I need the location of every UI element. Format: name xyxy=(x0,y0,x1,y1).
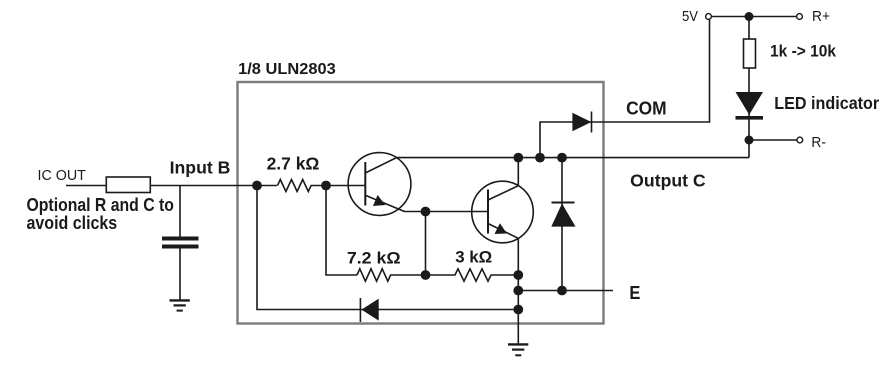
svg-text:1k -> 10k: 1k -> 10k xyxy=(770,42,837,60)
wire LED branch vertical xyxy=(748,17,750,158)
node 7.2k/3k junction dot xyxy=(421,270,431,280)
svg-text:7.2 kΩ: 7.2 kΩ xyxy=(347,249,401,268)
terminal R+ open circle xyxy=(797,14,803,20)
svg-text:Input B: Input B xyxy=(170,158,231,178)
wire capacitor branch down xyxy=(179,186,181,238)
terminal R- open circle xyxy=(797,137,803,143)
wire capacitor to ground xyxy=(179,249,181,301)
wire from 326 down to 7.2k xyxy=(326,186,357,276)
svg-text:R+: R+ xyxy=(812,8,830,25)
node after 2.7k dot xyxy=(321,181,331,191)
wire resistor to 2.7k zigzag start xyxy=(150,185,277,187)
transistor Q1 xyxy=(348,153,411,216)
svg-text:LED indicator: LED indicator xyxy=(774,93,879,113)
wire IC OUT to input resistor xyxy=(66,185,106,187)
wire input-B down and bottom diode line xyxy=(257,186,518,310)
LED indicator diode xyxy=(736,92,764,115)
IC box 1/8 ULN2803 xyxy=(238,82,604,324)
resistor 7.2k zigzag xyxy=(357,269,426,281)
resistor R-optional (box style) xyxy=(106,177,150,193)
diode D-base (left pointing) xyxy=(359,298,361,322)
wire collector bus (Output C line) xyxy=(397,157,750,159)
node Input B dot xyxy=(252,181,262,191)
wire to Q1 base xyxy=(326,185,365,187)
wire COM riser and COM line to 5V xyxy=(540,20,710,158)
wire Q2 collector up xyxy=(517,158,519,186)
svg-text:avoid clicks: avoid clicks xyxy=(27,213,118,233)
svg-text:R-: R- xyxy=(811,134,826,151)
wire Q2 emitter down xyxy=(517,238,519,344)
node collector junction dot xyxy=(513,153,523,163)
node emitter/7.2k dot xyxy=(421,207,431,217)
Q1 emitter arrow xyxy=(373,195,385,206)
transistor Q2 xyxy=(472,181,534,243)
node E junction dot xyxy=(513,286,523,296)
wire R- xyxy=(749,139,797,141)
Q2 emitter arrow xyxy=(495,223,508,234)
ground (emitter) xyxy=(508,344,528,355)
wire 5V to R+ xyxy=(712,16,797,18)
svg-text:5V: 5V xyxy=(682,8,698,25)
svg-text:3 kΩ: 3 kΩ xyxy=(455,248,492,267)
wire E line xyxy=(518,290,613,292)
node 3k/emitter junction dot xyxy=(513,270,523,280)
resistor 1k->10k (box style) xyxy=(744,39,756,68)
diode D-COM xyxy=(572,113,591,132)
diode D-flyback xyxy=(561,158,563,291)
resistor 3k zigzag xyxy=(426,269,519,281)
node bottom junction dot xyxy=(513,305,523,315)
capacitor C-optional xyxy=(162,237,199,241)
node flyback top dot xyxy=(557,153,567,163)
node 5V/resistor dot xyxy=(745,12,754,21)
node COM riser dot xyxy=(535,153,545,163)
wire down from emitter dot to resistor row xyxy=(425,212,427,276)
svg-text:Output C: Output C xyxy=(630,171,706,191)
node flyback bottom dot xyxy=(557,286,567,296)
wire Q1 emitter to Q2 base xyxy=(405,211,489,213)
svg-text:1/8 ULN2803: 1/8 ULN2803 xyxy=(238,61,336,78)
svg-text:Optional R and C to: Optional R and C to xyxy=(27,195,174,215)
resistor 2.7k zigzag xyxy=(278,180,327,192)
node R- dot xyxy=(745,136,754,145)
svg-text:IC OUT: IC OUT xyxy=(38,167,86,184)
svg-text:E: E xyxy=(629,283,640,303)
ground (capacitor) xyxy=(170,300,190,310)
svg-text:2.7 kΩ: 2.7 kΩ xyxy=(267,154,320,174)
svg-text:COM: COM xyxy=(626,99,667,119)
terminal 5V open circle xyxy=(706,14,712,20)
